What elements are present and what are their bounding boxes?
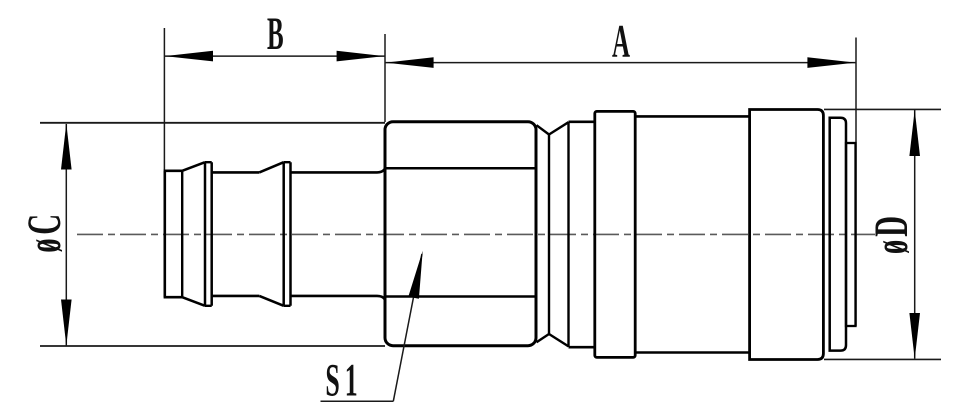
barb 1 cone bottom: [182, 297, 205, 306]
svg-text:B: B: [267, 8, 284, 60]
datum line top-left (oC top extension): [40, 122, 385, 124]
rear shank top: [291, 169, 385, 172]
hex flat bottom line: [386, 295, 536, 298]
barb 2 cone top: [259, 162, 283, 172]
barb tip top flat: [164, 170, 183, 173]
end disc: [846, 143, 856, 326]
S1 leader tail: [321, 400, 394, 402]
hex flat top line: [386, 167, 536, 170]
dimension oD arrow down: [909, 313, 920, 359]
cone-cylinder edge: [567, 122, 569, 347]
S1 leader arrowhead: [408, 251, 422, 299]
barb 2 bottom cap: [284, 305, 291, 307]
barb tip edge: [181, 171, 183, 297]
barb 2 cone bottom: [259, 296, 283, 306]
dimension oC arrow up: [61, 123, 72, 169]
shank between barbs top: [212, 171, 260, 174]
end cap small: [830, 118, 846, 351]
svg-text:S1: S1: [325, 354, 362, 406]
dimension B line: [164, 55, 385, 57]
hex body: [385, 122, 536, 346]
front cylinder bottom: [569, 346, 596, 349]
front cylinder top: [569, 121, 596, 124]
dimension B arrow left: [165, 51, 213, 62]
svg-text:A: A: [612, 15, 630, 67]
sleeve cylinder bottom: [635, 351, 750, 354]
extension line right (cap end, x=856): [855, 38, 857, 327]
barb 1 back face line a: [204, 162, 207, 306]
dimension A arrow left: [386, 57, 434, 68]
ring band: [595, 111, 635, 357]
dimension oC arrow down: [61, 300, 72, 346]
groove cone top: [549, 122, 569, 134]
datum line top-right (oD top extension): [824, 108, 941, 110]
datum line bottom-right (oD bottom extension): [824, 358, 941, 360]
sleeve cylinder top: [635, 115, 750, 118]
dimension A line: [385, 62, 856, 64]
barb 1 cone top: [182, 162, 205, 171]
barb 1 top cap: [205, 161, 212, 163]
dimension oC line: [65, 124, 67, 346]
groove cone bottom: [549, 334, 569, 346]
centerline (axis): [77, 233, 875, 235]
barb 1 back face line b: [210, 162, 213, 306]
dimension A arrow right: [807, 57, 855, 68]
svg-text:øC: øC: [18, 210, 71, 252]
dimension B arrow right: [337, 51, 385, 62]
groove slant top-left: [537, 125, 550, 134]
dimension oD line: [914, 110, 916, 359]
end cap large: [750, 110, 824, 360]
barb 2 back face line b: [289, 162, 292, 306]
extension line left (barb tip, x=164): [163, 28, 165, 170]
rear shank bottom: [291, 296, 385, 299]
barb 1 bottom cap: [205, 305, 212, 307]
svg-text:øD: øD: [865, 213, 918, 254]
barb 2 back face line a: [282, 162, 285, 306]
groove edge: [548, 135, 550, 335]
shank between barbs bottom: [212, 295, 260, 298]
extension line middle (hex face, x=385): [384, 34, 386, 122]
groove slant bottom-left: [537, 334, 550, 342]
barb tip face: [164, 171, 167, 297]
datum line bottom-left (oC bottom extension): [40, 345, 385, 347]
barb 2 top cap: [284, 161, 291, 163]
dimension oD arrow up: [909, 110, 920, 156]
S1 leader diagonal: [393, 254, 422, 401]
barb tip bottom flat: [164, 296, 183, 299]
